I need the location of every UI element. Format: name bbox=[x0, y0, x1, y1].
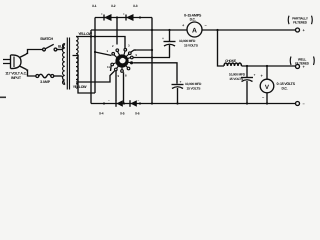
svg-text:10,000 MFD: 10,000 MFD bbox=[229, 73, 246, 77]
node voltmeter bottom (267,104) bbox=[266, 102, 268, 104]
wire plug to fuse bbox=[26, 70, 36, 76]
wire rail y=30 (to ammeter and + output) bbox=[91, 29, 296, 31]
socket pin 7 (down-right) bbox=[127, 67, 130, 70]
svg-text:15 VOLTS: 15 VOLTS bbox=[187, 87, 202, 91]
label PARTIALLY FILTERED bbox=[288, 16, 312, 25]
node (104,103.5) bbox=[103, 102, 105, 104]
terminal + partially filtered bbox=[296, 28, 306, 33]
capacitor C1 bbox=[162, 30, 176, 58]
wire choke to + terminal bbox=[242, 65, 297, 67]
svg-text:+: + bbox=[180, 80, 182, 84]
node diode junction (140,17) bbox=[139, 16, 141, 18]
node at (95,52) bbox=[94, 51, 96, 53]
transformer T1 core bbox=[67, 38, 69, 90]
wire pin9 down to bottom rail bbox=[115, 71, 117, 101]
wire voltmeter bottom lead bbox=[266, 93, 268, 104]
wire fuse to transformer primary bbox=[54, 75, 62, 77]
transformer T1 primary winding bbox=[62, 44, 65, 85]
svg-text:X-6: X-6 bbox=[135, 112, 140, 116]
wire switch to transformer primary bbox=[57, 49, 62, 51]
terminal - output bbox=[296, 101, 306, 106]
node at (91,36) bbox=[90, 35, 92, 37]
switch S1 bbox=[43, 44, 57, 51]
capacitor C3 bbox=[241, 66, 256, 104]
wire vertical x=152 bbox=[151, 18, 153, 105]
wire pin8 down to bottom rail bbox=[123, 72, 125, 103]
svg-text:FILTERED: FILTERED bbox=[293, 21, 308, 25]
svg-text:A: A bbox=[192, 27, 197, 34]
socket pin 6 (right y=63 filled) bbox=[130, 61, 133, 64]
svg-text:+: + bbox=[162, 37, 164, 41]
node (124,103.5) bbox=[123, 102, 125, 104]
svg-text:X-5: X-5 bbox=[120, 112, 125, 116]
wire pin3 up to y=36 corner bbox=[124, 44, 126, 49]
svg-text:10,000 MFD: 10,000 MFD bbox=[179, 39, 196, 43]
svg-text:15 VOLTS: 15 VOLTS bbox=[184, 44, 199, 48]
socket pin 10 (left) bbox=[111, 63, 114, 66]
svg-text:X-2: X-2 bbox=[111, 4, 116, 8]
socket pin number marks bbox=[107, 44, 138, 79]
svg-text:117 VOLT A.C.: 117 VOLT A.C. bbox=[5, 72, 27, 76]
tube socket SO1 body bbox=[113, 51, 130, 70]
svg-text:FILTERED: FILTERED bbox=[295, 62, 310, 66]
svg-text:+: + bbox=[123, 12, 125, 16]
wire vertical x=117 top rail to socket pin bbox=[116, 18, 118, 45]
node C3 top (247,66) bbox=[246, 65, 248, 67]
svg-text:CHOKE: CHOKE bbox=[225, 59, 237, 63]
svg-text:X-3: X-3 bbox=[133, 4, 138, 8]
socket pin 3 (up x=125) bbox=[124, 49, 127, 52]
wire y=57 to C1 corner bbox=[169, 57, 172, 59]
transformer T1 secondary winding bbox=[76, 37, 78, 89]
socket pin 2 (up x=117) bbox=[116, 49, 119, 52]
svg-text:INPUT: INPUT bbox=[11, 76, 22, 80]
wire plug to switch bbox=[26, 50, 43, 54]
node C3 bottom (247,104) bbox=[246, 102, 248, 104]
wire pin6 to y=63 wire and down to C2 bbox=[133, 63, 177, 84]
socket pin 9 (down-left x=115) bbox=[115, 68, 118, 71]
node (152,50) bbox=[151, 49, 153, 51]
wire secondary bottom lead y=82 bbox=[76, 71, 115, 82]
node at (95,36) bbox=[94, 35, 96, 37]
wire pin10 to secondary bottom lead bbox=[110, 65, 113, 71]
AC plug P1 bbox=[3, 54, 27, 70]
capacitor C2 bbox=[172, 80, 184, 104]
node diode junction (117,17) bbox=[116, 16, 118, 18]
label WELL FILTERED bbox=[290, 57, 314, 66]
choke L1 bbox=[224, 63, 242, 66]
svg-text:SWITCH: SWITCH bbox=[40, 37, 53, 41]
node (152,103.5) bbox=[151, 102, 153, 104]
bottom rail y=103.5 bbox=[91, 103, 296, 105]
node (152,30) bbox=[151, 29, 153, 31]
socket pin 1 (up-left) bbox=[112, 53, 115, 56]
node C2 bottom (177,104) bbox=[176, 102, 178, 104]
terminal + well filtered bbox=[296, 64, 306, 69]
socket pin 4 (up-right) bbox=[129, 52, 132, 55]
svg-text:15 VOLTS: 15 VOLTS bbox=[229, 77, 244, 81]
svg-text:YELLOW: YELLOW bbox=[73, 85, 87, 89]
wire vertical x=95 (top rail to center-tap run) bbox=[94, 18, 96, 94]
node choke tap (218,30) bbox=[216, 29, 218, 31]
wire secondary top lead y=36 bbox=[76, 37, 125, 44]
wire pin4 to y=50 wire bbox=[131, 50, 152, 52]
wire voltmeter top lead bbox=[266, 66, 268, 80]
rectifier X3 bbox=[116, 100, 123, 107]
voltmeter M2 bbox=[260, 73, 274, 100]
wire vertical x=91 (rail y30 to bottom rail) bbox=[90, 30, 92, 104]
top rail y=17 bbox=[95, 17, 152, 19]
svg-text:+: + bbox=[254, 73, 256, 77]
svg-text:0–15 VOLTS: 0–15 VOLTS bbox=[277, 82, 296, 86]
wire down to choke bbox=[218, 30, 225, 66]
rectifier X4 bbox=[130, 100, 137, 107]
node (140,103.5) bbox=[139, 102, 141, 104]
svg-text:+: + bbox=[101, 12, 103, 16]
svg-text:11: 11 bbox=[107, 65, 110, 69]
rectifier X2 bbox=[123, 12, 134, 21]
wire center tap bbox=[73, 56, 96, 94]
socket pin 5 (right y=57) bbox=[131, 56, 134, 59]
node (152,57) bbox=[151, 56, 153, 58]
svg-text:10,000 MFD: 10,000 MFD bbox=[185, 82, 202, 86]
node voltmeter top (267,66) bbox=[266, 65, 268, 67]
wire socket upper-left pin to x=95 bbox=[95, 52, 112, 56]
wire pin5 to y=57 wire bbox=[133, 57, 170, 59]
left edge dash bbox=[0, 97, 6, 99]
rectifier X1 bbox=[101, 12, 112, 21]
socket pin 8 (down x=122) bbox=[121, 70, 124, 73]
svg-text:D.C.: D.C. bbox=[282, 87, 288, 91]
svg-text:X-1: X-1 bbox=[92, 4, 97, 8]
svg-text:3 AMP: 3 AMP bbox=[40, 80, 51, 84]
fuse F1 bbox=[36, 74, 54, 78]
ammeter M1 bbox=[182, 22, 208, 37]
svg-text:X-4: X-4 bbox=[99, 112, 104, 116]
node C1 top (169,30) bbox=[168, 29, 170, 31]
svg-text:D.C.: D.C. bbox=[190, 18, 196, 22]
